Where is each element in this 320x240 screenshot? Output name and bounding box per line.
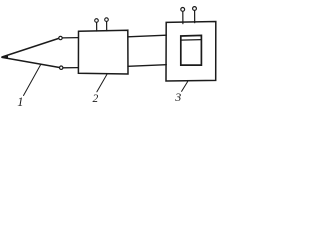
label 3 bbox=[175, 90, 181, 105]
wire lower contact to box 2 bbox=[63, 67, 78, 69]
terminal stem T3 on box 3 bbox=[182, 11, 184, 23]
meter window inside box 3 bbox=[181, 35, 202, 65]
box 2 (converter unit) bbox=[78, 30, 128, 74]
leader line to label 2 bbox=[97, 74, 107, 92]
probe tip (element 1 point) bbox=[1, 55, 8, 59]
terminal stem T1 on box 2 bbox=[96, 22, 98, 31]
upper contact circle bbox=[59, 36, 62, 39]
wire lower box 2 to box 3 bbox=[128, 65, 166, 67]
wire upper contact to box 2 bbox=[62, 37, 78, 39]
label 1 bbox=[17, 95, 23, 110]
label 2 bbox=[93, 93, 99, 105]
terminal stem T4 on box 3 bbox=[194, 11, 196, 23]
terminal circle T3 on box 3 bbox=[181, 7, 185, 11]
terminal circle T4 on box 3 bbox=[193, 7, 197, 11]
terminal circle T2 on box 2 bbox=[105, 18, 109, 22]
terminal stem T2 on box 2 bbox=[106, 22, 108, 31]
probe upper arm bbox=[2, 38, 59, 57]
box 3 (indicator unit) bbox=[166, 22, 216, 82]
leader line to label 3 bbox=[182, 82, 188, 92]
leader line to label 1 bbox=[24, 64, 42, 96]
terminal circle T1 on box 2 bbox=[95, 19, 99, 23]
probe lower arm bbox=[2, 57, 60, 67]
meter scale line bbox=[181, 39, 201, 42]
lower contact circle bbox=[60, 66, 63, 69]
wire upper box 2 to box 3 bbox=[128, 35, 166, 37]
